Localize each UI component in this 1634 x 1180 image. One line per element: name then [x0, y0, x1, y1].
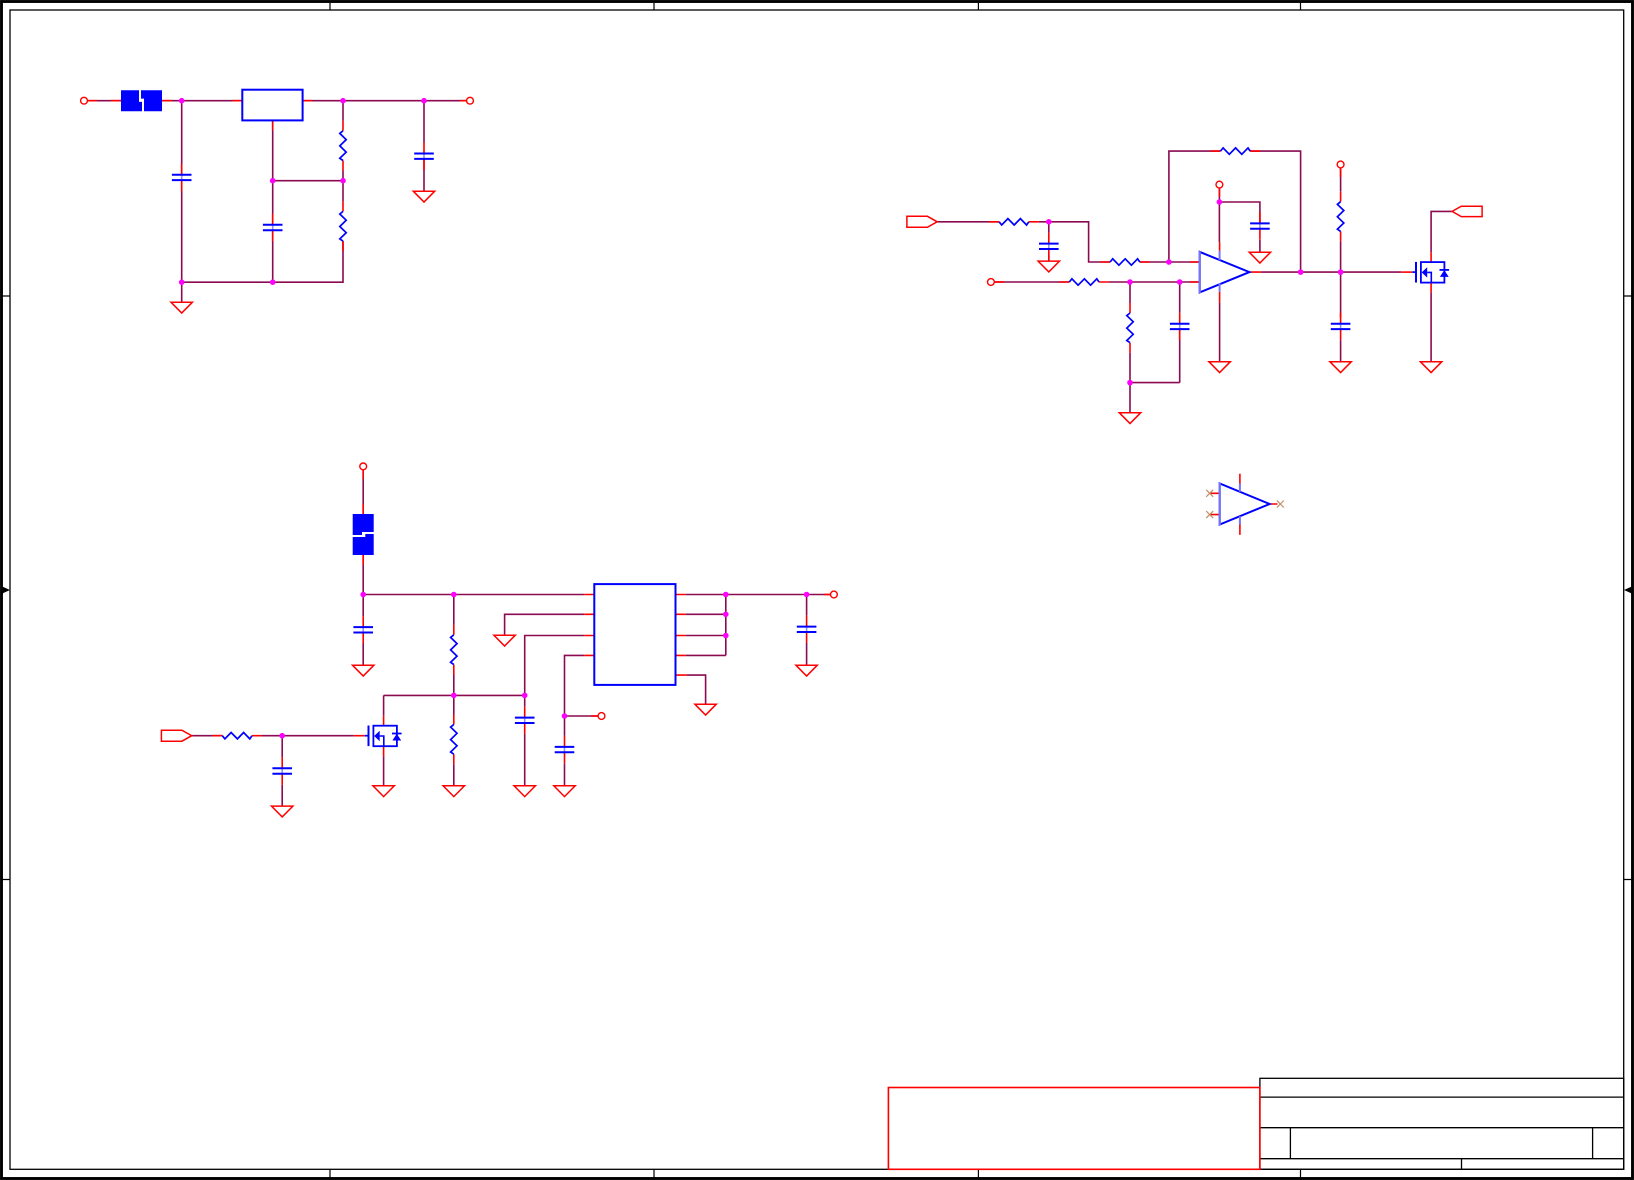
wire Q2 source to ground G14: [383, 756, 385, 786]
wire IC pin4 down to sense node: [565, 655, 585, 716]
junction supply bus at R9: [451, 592, 457, 598]
inverting input terminal circle: [988, 279, 1005, 286]
wire R10 to ground G10: [453, 764, 455, 786]
junction lower RC node: [1127, 380, 1133, 386]
resistor R3: [989, 219, 1039, 225]
wire op-amp output to gate of Q1: [1261, 271, 1401, 273]
wire rail node up to IC pin: [525, 636, 584, 696]
wire Q1 source to ground G8: [1430, 293, 1432, 362]
junction node B at R7: [1127, 279, 1133, 285]
wire rail node to capacitor C9: [524, 695, 526, 706]
pull resistor R8: [1337, 192, 1343, 242]
resistor R10: [451, 715, 457, 765]
ground G7: [1330, 362, 1351, 373]
capacitor C6: [1170, 313, 1190, 340]
wire R5 to output node: [1250, 151, 1300, 272]
transistor Q2 n-mosfet: [354, 716, 402, 757]
wire R1 to adj node: [342, 171, 344, 181]
ground G6: [1119, 413, 1140, 424]
fuse F1: [111, 90, 172, 111]
wire op-amp V- to ground G5: [1219, 302, 1221, 361]
capacitor C2: [263, 214, 283, 241]
resistor R5 feedback: [1211, 148, 1261, 154]
wire VCC circle to supply junction: [1218, 188, 1220, 202]
ground G10: [443, 786, 464, 797]
sense test circle: [591, 713, 605, 720]
wire sense node to test circle: [565, 715, 599, 717]
junction node VOUT at R1: [340, 98, 346, 104]
wire C3 to ground G2: [423, 159, 425, 191]
wire port IN to resistor R3: [937, 221, 999, 223]
transistor Q1 n-mosfet: [1401, 252, 1449, 293]
wire drain rail down to Q2 drain: [383, 695, 385, 715]
op-amp U3 unused section: [1210, 474, 1277, 535]
capacitor C8: [353, 616, 373, 643]
ground G17: [796, 665, 817, 676]
wire node VIN down to capacitor C1: [181, 101, 183, 175]
junction ground rail mid: [270, 279, 276, 285]
junction right tie pin2: [723, 612, 729, 618]
junction node B at C6: [1177, 279, 1183, 285]
junction gate node: [279, 733, 285, 739]
wire Q1 drain up to port OUT: [1431, 211, 1452, 252]
junction drain rail at C9: [522, 693, 528, 699]
output terminal circle: [824, 591, 838, 598]
capacitor C7: [1331, 313, 1351, 340]
no-connect X on minus input: [1206, 511, 1213, 518]
wire VOUT node to resistor R1: [342, 101, 344, 121]
junction output at R8 C7: [1338, 269, 1344, 275]
wire node A to capacitor C4: [1048, 222, 1050, 233]
ground G4: [1249, 252, 1270, 263]
no-connect X on plus input: [1206, 490, 1213, 497]
wire supply junction down to op-amp V+: [1218, 202, 1220, 242]
port EN tag: [161, 730, 191, 741]
wire C12 to ground G17: [806, 643, 808, 665]
wire R8 branch from circle down: [1340, 168, 1342, 192]
title block: [1260, 1078, 1624, 1169]
wire adj node to resistor R2: [342, 181, 344, 202]
wire sense node to capacitor C10: [564, 716, 566, 736]
wire drain rail horizontal: [384, 694, 525, 696]
junction adj node right: [340, 178, 346, 184]
resistor R11: [212, 733, 262, 739]
junction ground rail left: [179, 279, 185, 285]
ground G8 under Q1: [1420, 362, 1441, 373]
wire output node down to capacitor C7: [1340, 272, 1342, 318]
junction supply node: [1217, 199, 1223, 205]
wire IC pin2 to ground leg: [505, 614, 584, 635]
wire C5 to ground G4: [1259, 240, 1261, 252]
wire R3 to node then jog down to resistor R4: [1039, 222, 1110, 262]
capacitor C12: [797, 616, 817, 643]
ground G15: [272, 806, 293, 817]
junction node VOUT at C3: [421, 98, 427, 104]
wire R4 to op-amp plus input: [1140, 261, 1200, 263]
wire IC output pin1 to terminal: [686, 594, 831, 596]
port OUT tag: [1452, 206, 1482, 216]
wire U1 adj pin down: [272, 120, 274, 180]
wire fuse F1 to regulator U1: [162, 100, 242, 102]
ground G2: [413, 191, 434, 202]
VCC terminal circle: [1216, 181, 1223, 197]
junction adj node left: [270, 178, 276, 184]
junction right tie pin3: [723, 633, 729, 639]
capacitor C10: [555, 736, 575, 763]
junction supply bus at fuse: [360, 592, 366, 598]
wire IC pin5 to ground G16: [687, 675, 706, 704]
wire inverting input terminal to resistor R6: [994, 281, 1069, 283]
wire C10 to ground G13: [564, 763, 566, 786]
wire bus node to capacitor C8: [362, 595, 364, 617]
IC U4: [584, 584, 687, 685]
regulator U1: [233, 90, 313, 131]
ground G12: [494, 635, 515, 646]
wire supply bus to IC U4: [363, 594, 584, 596]
junction output at feedback: [1298, 269, 1304, 275]
resistor R1: [340, 121, 346, 171]
wire supply junction to decoupling capacitor C5: [1219, 202, 1260, 223]
wire C11 to ground G15: [281, 785, 283, 806]
junction right tie top: [723, 592, 729, 598]
ground G5 under op-amp: [1209, 362, 1230, 373]
wire adj node horizontal: [273, 180, 343, 182]
wire input to fuse F1: [87, 100, 121, 102]
fuse F2: [353, 504, 374, 565]
ground G14 under Q2: [373, 786, 394, 797]
wire C9 to ground G11: [524, 734, 526, 786]
junction node VIN: [179, 98, 185, 104]
capacitor C9: [515, 707, 535, 734]
no-connect X on output: [1277, 501, 1284, 508]
capacitor C11: [272, 757, 292, 784]
wire adj node to capacitor C2: [272, 181, 274, 225]
wire node B down to resistor R7: [1129, 282, 1131, 303]
wire drain node to resistor R10: [453, 695, 455, 714]
resistor R9: [451, 625, 457, 675]
ground G11: [514, 786, 535, 797]
input terminal circle: [81, 97, 97, 104]
wire R6 to op-amp minus input: [1109, 281, 1200, 283]
wire U1 output to terminal: [303, 100, 467, 102]
ground G9: [353, 665, 374, 676]
op-amp U2: [1190, 242, 1261, 302]
wire IC pin3 right: [686, 635, 726, 637]
resistor R2: [340, 201, 346, 251]
wire C4 to ground G3: [1048, 254, 1050, 261]
wire R11 to Q2 gate: [262, 735, 354, 737]
R8 top terminal circle: [1337, 161, 1344, 177]
wire port EN to resistor R11: [192, 735, 223, 737]
wire bus node to resistor R9: [453, 595, 455, 625]
wire VOUT node to capacitor C3: [423, 101, 425, 143]
wire bottom ground rail: [182, 241, 343, 282]
port IN tag: [907, 216, 937, 227]
red revision box: [888, 1088, 1260, 1170]
wire C7 to ground G7: [1340, 340, 1342, 362]
wire C6 leg vertical: [1179, 282, 1181, 383]
capacitor C5: [1250, 212, 1270, 239]
ground G13: [554, 786, 575, 797]
resistor R4: [1100, 259, 1150, 265]
junction drain rail at R10: [451, 693, 457, 699]
wire gate node down to capacitor C11: [281, 736, 283, 758]
junction feedback at plus input: [1166, 259, 1172, 265]
capacitor C1: [172, 164, 192, 191]
ground G1: [171, 302, 192, 313]
wire ground stub G1: [181, 282, 183, 302]
ground G16: [695, 704, 716, 715]
junction sense node: [562, 713, 568, 719]
resistor R6: [1059, 279, 1109, 285]
resistor R7: [1127, 303, 1133, 353]
wire lower node horizontal to C6 leg: [1130, 382, 1180, 384]
wire IC pin4 right: [686, 654, 726, 656]
wire R9 to drain rail: [453, 675, 455, 696]
wire F2 to supply bus: [362, 555, 364, 595]
capacitor C3: [414, 143, 434, 170]
wire R7 to lower node: [1129, 353, 1131, 383]
ground G3: [1038, 261, 1059, 272]
wire output node to capacitor C12: [806, 595, 808, 616]
junction node A: [1046, 219, 1052, 225]
wire right tie vertical: [725, 595, 727, 656]
wire C1 to ground rail: [181, 180, 183, 282]
wire C8 to ground G9: [362, 644, 364, 666]
wire R8 to output node: [1340, 241, 1342, 272]
wire lower node to ground G6: [1129, 383, 1131, 413]
wire IC pin2 right: [686, 613, 726, 615]
supply terminal circle: [360, 463, 367, 479]
capacitor C4: [1039, 233, 1059, 260]
output terminal circle: [460, 97, 474, 104]
junction output at C12: [804, 592, 810, 598]
wire feedback loop up and over resistor R5: [1169, 151, 1221, 262]
wire C2 to ground rail: [272, 230, 274, 282]
wire supply circle down to fuse F2: [362, 470, 364, 515]
